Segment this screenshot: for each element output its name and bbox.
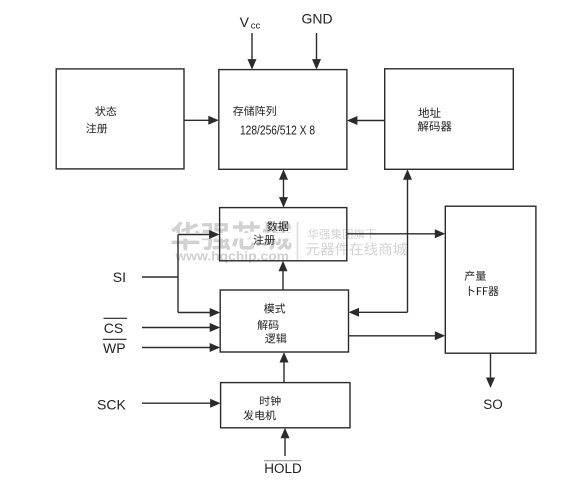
svg-text:V: V — [240, 14, 250, 30]
svg-text:CS: CS — [104, 320, 123, 336]
svg-text:128/256/512 X 8: 128/256/512 X 8 — [240, 123, 315, 137]
svg-text:HOLD: HOLD — [264, 461, 302, 476]
svg-text:SCK: SCK — [97, 397, 126, 413]
svg-text:WP: WP — [103, 340, 126, 356]
svg-text:SO: SO — [483, 397, 503, 412]
svg-text:SI: SI — [113, 269, 126, 285]
svg-text:cc: cc — [251, 21, 261, 32]
svg-text:GND: GND — [302, 11, 333, 27]
svg-text:www.hqchip.com: www.hqchip.com — [174, 250, 289, 264]
